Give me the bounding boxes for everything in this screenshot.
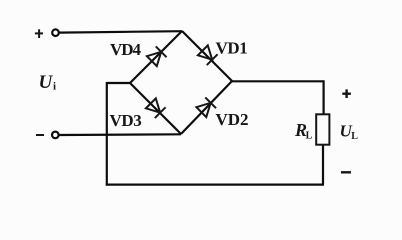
wire: left corner jog [107,82,130,84]
polarity mark: - at load [341,171,351,173]
svg-text:VD3: VD3 [110,111,142,130]
wire: bridge right corner to load top [232,80,324,82]
polarity mark: - at input [36,134,44,136]
wire: bridge edge top-right (VD1 branch) [182,31,232,81]
wire: left vertical rail [106,82,108,186]
svg-text:VD4: VD4 [110,40,142,59]
polarity mark: + at load [342,89,351,98]
diode VD3 [145,98,165,118]
svg-text:i: i [53,81,56,93]
svg-text:VD1: VD1 [216,39,248,58]
wire: - input to bridge bottom [59,133,182,136]
resistor RL body [316,114,329,144]
svg-text:L: L [351,131,358,142]
wire: bridge edge bottom-left (VD3 branch) [130,83,181,134]
diode VD4 [146,46,166,66]
wire: bottom rail [106,184,324,186]
diode VD2 [196,97,216,117]
svg-text:VD2: VD2 [216,110,249,129]
terminal: + input [52,29,59,36]
wire: right rail lower (load bottom) [322,145,324,185]
polarity mark: + at input [35,29,43,38]
wire: right rail upper (load top) [323,80,325,114]
terminal: - input [52,132,59,139]
wire: bridge edge top-left (VD4 branch) [130,31,182,83]
wire: bridge edge bottom-right (VD2 branch) [181,81,232,134]
svg-text:U: U [39,72,54,93]
svg-text:L: L [306,130,313,141]
diode VD1 [197,45,217,65]
wire: + input to bridge top [59,31,183,32]
